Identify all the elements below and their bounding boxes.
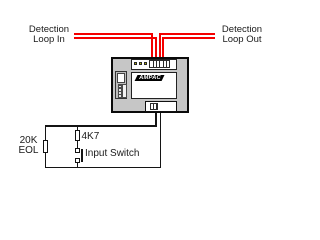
LED D1 bbox=[134, 62, 137, 65]
wire: loop out lower (red horizontal) bbox=[162, 37, 215, 39]
wire: middle branch vertical bbox=[77, 125, 79, 149]
wire: switch to bottom rail bbox=[77, 163, 79, 169]
panel: center label area bbox=[131, 72, 178, 99]
connector J1: top terminal strip panel bbox=[131, 59, 177, 70]
resistor R2: 4K7 bbox=[75, 130, 80, 141]
switch S1: input switch lower contact bbox=[75, 158, 80, 163]
wire: input - drop from module bbox=[160, 113, 162, 169]
connector J3: side pin header bbox=[118, 84, 127, 98]
label: 4K7 bbox=[82, 132, 102, 142]
wire: bottom rail of EOL circuit bbox=[45, 167, 162, 169]
terminal block TB2: input terminals bbox=[150, 103, 158, 111]
switch S1: input switch upper contact bbox=[75, 148, 80, 153]
label: Input Switch bbox=[85, 149, 155, 159]
wire: loop out upper drop (red vertical) bbox=[159, 33, 161, 57]
module U1: loop device body bbox=[111, 57, 189, 113]
panel: bottom terminal strip bbox=[145, 101, 177, 112]
LED D3 bbox=[144, 62, 147, 65]
wire: loop in lower (red horizontal) bbox=[74, 37, 156, 39]
wire: loop in lower drop (red vertical) bbox=[155, 37, 157, 57]
wire: left leg to 20K EOL bbox=[45, 125, 47, 168]
wire: top rail of EOL circuit bbox=[45, 125, 157, 127]
component K1: relay housing left side bbox=[115, 71, 127, 99]
wire: loop out lower drop (red vertical) bbox=[162, 37, 164, 57]
terminal block TB1: 6-way loop terminals bbox=[149, 60, 170, 69]
wire: input + drop from module bbox=[155, 113, 157, 127]
wire: loop out upper (red horizontal) bbox=[159, 33, 216, 35]
wire: loop in upper (red horizontal) bbox=[74, 33, 153, 35]
switch S1: lever bbox=[81, 149, 83, 163]
node label: Detection Loop Out bbox=[219, 25, 265, 45]
resistor R1: 20K EOL bbox=[43, 140, 49, 153]
logo: AMPAC badge bbox=[134, 75, 164, 81]
wire: loop in upper drop (red vertical) bbox=[151, 33, 153, 57]
label: 20K EOL bbox=[17, 136, 41, 157]
node label: Detection Loop In bbox=[27, 25, 71, 45]
LED D2 bbox=[139, 62, 142, 65]
